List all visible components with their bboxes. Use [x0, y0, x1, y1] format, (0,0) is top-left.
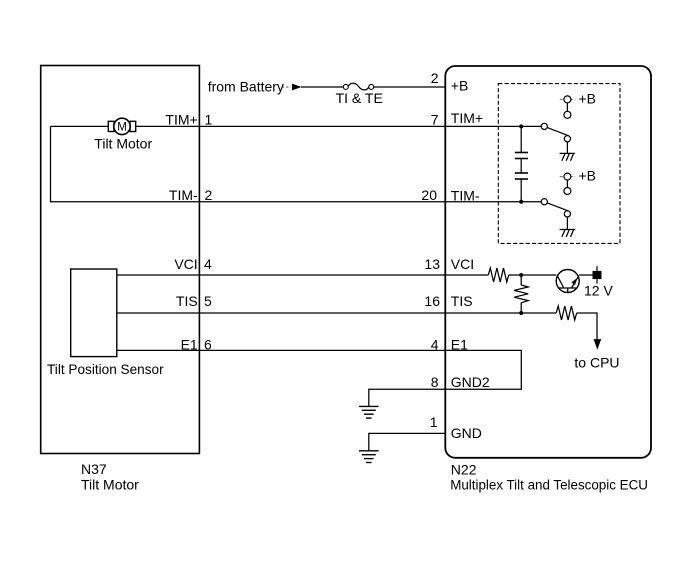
- svg-text:13: 13: [424, 256, 440, 272]
- svg-text:4: 4: [431, 336, 439, 352]
- svg-text:GND2: GND2: [451, 374, 490, 390]
- svg-text:E1: E1: [181, 336, 198, 352]
- svg-text:+B: +B: [579, 90, 597, 106]
- svg-text:1: 1: [430, 414, 438, 430]
- svg-text:from Battery: from Battery: [208, 78, 284, 94]
- svg-text:GND: GND: [451, 425, 482, 441]
- svg-text:TI & TE: TI & TE: [336, 90, 383, 106]
- svg-text:+B: +B: [451, 78, 469, 94]
- svg-text:6: 6: [204, 336, 212, 352]
- svg-text:12 V: 12 V: [584, 283, 613, 299]
- svg-text:7: 7: [431, 112, 439, 128]
- svg-text:M: M: [117, 122, 127, 134]
- svg-text:E1: E1: [451, 336, 468, 352]
- svg-text:TIS: TIS: [176, 293, 198, 309]
- svg-text:2: 2: [205, 187, 213, 203]
- svg-text:N37: N37: [81, 461, 107, 477]
- svg-text:+B: +B: [579, 168, 597, 184]
- svg-text:TIM+: TIM+: [165, 112, 197, 128]
- svg-text:Multiplex Tilt and Telescopic: Multiplex Tilt and Telescopic ECU: [450, 478, 648, 493]
- svg-text:Tilt Motor: Tilt Motor: [94, 136, 152, 152]
- svg-text:5: 5: [204, 293, 212, 309]
- svg-text:16: 16: [424, 293, 440, 309]
- svg-text:TIM-: TIM-: [451, 187, 480, 203]
- svg-text:4: 4: [204, 256, 212, 272]
- svg-text:1: 1: [205, 112, 213, 128]
- svg-text:VCI: VCI: [451, 256, 474, 272]
- svg-text:TIM-: TIM-: [169, 187, 198, 203]
- svg-text:20: 20: [421, 187, 437, 203]
- svg-text:TIS: TIS: [451, 293, 473, 309]
- svg-text:2: 2: [431, 70, 439, 86]
- svg-text:8: 8: [431, 374, 439, 390]
- svg-text:Tilt Position Sensor: Tilt Position Sensor: [47, 362, 164, 377]
- svg-text:VCI: VCI: [174, 256, 197, 272]
- svg-text:to CPU: to CPU: [574, 354, 619, 370]
- svg-text:TIM+: TIM+: [451, 110, 483, 126]
- svg-text:Tilt Motor: Tilt Motor: [81, 476, 139, 492]
- svg-text:N22: N22: [451, 462, 477, 478]
